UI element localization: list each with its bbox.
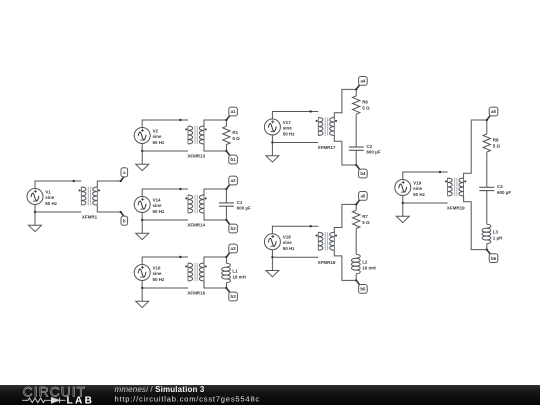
wire primary top — [142, 257, 188, 265]
svg-text:sine: sine — [153, 203, 163, 208]
svg-text:50 Hz: 50 Hz — [153, 209, 166, 214]
ground — [29, 212, 42, 232]
wire secondary bottom — [334, 136, 356, 166]
svg-text:XFMR17: XFMR17 — [318, 145, 336, 150]
svg-text:b5: b5 — [360, 287, 366, 292]
wire secondary top — [204, 120, 226, 126]
wire R1 bottom stub — [225, 145, 227, 152]
resistor R1 — [223, 126, 230, 144]
label V16 value (sine 50 Hz) — [153, 265, 166, 282]
svg-text:V17: V17 — [283, 120, 292, 125]
svg-text:600 µF: 600 µF — [366, 149, 380, 154]
junction — [179, 188, 181, 190]
svg-text:b2: b2 — [231, 226, 237, 231]
svg-text:5 Ω: 5 Ω — [362, 220, 370, 225]
junction — [34, 211, 36, 213]
label V2 value (sine 50 Hz) — [153, 128, 166, 145]
wire C1 top stub — [225, 189, 227, 203]
svg-text:XFMR19: XFMR19 — [447, 206, 465, 211]
svg-text:L1: L1 — [232, 268, 238, 273]
node a1 — [225, 107, 237, 121]
svg-text:V18: V18 — [283, 235, 292, 240]
capacitor C4 — [479, 187, 494, 190]
wire C4-L3 — [486, 191, 488, 225]
inductor L1 — [222, 263, 231, 282]
svg-text:mmenesi / Simulation 3: mmenesi / Simulation 3 — [115, 385, 205, 394]
junction — [310, 110, 312, 112]
svg-text:XFMR1: XFMR1 — [82, 215, 98, 220]
transformer XFMR16 — [185, 263, 207, 281]
label V14 value (sine 50 Hz) — [153, 197, 166, 214]
voltage source V19 — [395, 180, 411, 196]
junction — [402, 202, 404, 204]
svg-text:R6: R6 — [362, 99, 368, 104]
junction — [141, 219, 143, 221]
svg-text:V19: V19 — [413, 180, 422, 185]
wire secondary bottom — [204, 281, 226, 288]
ground — [396, 203, 409, 223]
node b5 — [355, 279, 367, 293]
svg-text:600 µF: 600 µF — [237, 205, 251, 210]
label V17 value (sine 50 Hz) — [283, 120, 296, 136]
svg-text:50 Hz: 50 Hz — [45, 201, 58, 206]
wire primary bottom — [35, 205, 81, 213]
wire R6-C2 — [355, 114, 357, 147]
junction — [271, 141, 273, 143]
svg-text:sine: sine — [153, 271, 163, 276]
svg-text:L2: L2 — [362, 260, 368, 265]
svg-text:V1: V1 — [45, 189, 51, 194]
label L1 value — [232, 268, 246, 279]
label C2 value — [366, 144, 380, 155]
wire secondary bottom — [464, 196, 487, 250]
svg-text:sine: sine — [153, 134, 163, 139]
wire primary top — [142, 189, 188, 197]
svg-text:5 Ω: 5 Ω — [232, 136, 240, 141]
junction — [179, 256, 181, 258]
label L2 value — [362, 260, 376, 271]
svg-text:b3: b3 — [231, 294, 237, 299]
wire primary top — [272, 112, 318, 120]
svg-text:50 Hz: 50 Hz — [413, 192, 426, 197]
inductor L3 — [482, 224, 491, 243]
wire C1 bottom stub — [225, 206, 227, 220]
ground — [136, 288, 149, 308]
voltage source V1 — [27, 189, 43, 205]
voltage source V16 — [134, 265, 150, 281]
resistor R8 — [483, 134, 490, 152]
svg-text:b: b — [123, 218, 126, 223]
svg-text:XFMR14: XFMR14 — [187, 223, 205, 228]
voltage source V2 — [134, 128, 150, 144]
wire C2 bottom stub — [355, 150, 357, 165]
wire primary bottom — [272, 135, 318, 143]
node b6 — [486, 248, 498, 262]
svg-text:5 Ω: 5 Ω — [362, 106, 370, 111]
node a2 — [225, 176, 237, 190]
svg-text:1 µH: 1 µH — [493, 235, 503, 240]
wire L1 bottom stub — [225, 283, 227, 288]
label C4 value — [497, 184, 511, 195]
label V19 value (sine 50 Hz) — [413, 180, 426, 197]
ground — [136, 220, 149, 240]
wire secondary top — [204, 189, 226, 195]
wire R8 top stub — [486, 120, 488, 134]
svg-text:LAB: LAB — [67, 396, 95, 405]
wire R7 top stub — [355, 204, 357, 210]
wire secondary top — [204, 257, 226, 263]
wire primary bottom — [142, 213, 188, 221]
wire secondary bottom — [97, 205, 120, 212]
svg-text:50 Hz: 50 Hz — [283, 246, 296, 251]
svg-text:XFMR18: XFMR18 — [318, 260, 336, 265]
capacitor C2 — [349, 147, 364, 150]
resistor R7 — [353, 210, 360, 228]
wire secondary top — [464, 120, 487, 178]
junction — [141, 150, 143, 152]
voltage source V18 — [264, 234, 280, 250]
svg-text:C2: C2 — [366, 144, 372, 149]
label R1 value — [232, 130, 240, 141]
svg-text:C1: C1 — [237, 200, 243, 205]
node a6 — [486, 107, 498, 121]
node b3 — [225, 287, 237, 301]
svg-text:C4: C4 — [497, 184, 503, 189]
voltage source V14 — [134, 197, 150, 213]
svg-text:XFMR13: XFMR13 — [187, 154, 205, 159]
junction — [179, 119, 181, 121]
node b4 — [355, 164, 367, 178]
svg-text:V14: V14 — [153, 197, 162, 202]
svg-text:R1: R1 — [232, 130, 238, 135]
svg-text:50 Hz: 50 Hz — [283, 131, 296, 136]
junction — [271, 256, 273, 258]
wire L3 bottom stub — [486, 244, 488, 250]
wire L2 bottom stub — [355, 274, 357, 281]
node b — [120, 211, 128, 225]
label R8 value — [493, 137, 501, 148]
svg-text:5 Ω: 5 Ω — [493, 144, 501, 149]
label V18 value (sine 50 Hz) — [283, 235, 296, 252]
svg-text:b1: b1 — [231, 157, 237, 162]
wire primary bottom — [142, 144, 188, 152]
svg-text:R7: R7 — [362, 214, 368, 219]
wire secondary bottom — [204, 213, 226, 220]
svg-text:sine: sine — [45, 195, 55, 200]
transformer XFMR1 — [79, 187, 101, 205]
svg-text:V2: V2 — [153, 128, 159, 133]
node a4 — [355, 77, 367, 91]
footer bar — [0, 385, 540, 405]
svg-text:50 Hz: 50 Hz — [153, 140, 166, 145]
wire primary top — [403, 172, 448, 180]
junction — [141, 287, 143, 289]
voltage source V17 — [264, 119, 280, 135]
svg-text:V16: V16 — [153, 265, 162, 270]
wire R7-L2 — [355, 229, 357, 255]
wire R1 top stub — [225, 120, 227, 126]
transformer XFMR19 — [445, 178, 467, 196]
node b1 — [225, 150, 237, 164]
svg-text:http://circuitlab.com/csst7ges: http://circuitlab.com/csst7ges5548c — [115, 394, 260, 403]
svg-text:a4: a4 — [360, 79, 365, 84]
wire L1 top stub — [225, 257, 227, 263]
transformer XFMR17 — [316, 117, 338, 135]
transformer XFMR13 — [185, 126, 207, 144]
wire secondary bottom — [204, 144, 226, 151]
wire primary top — [142, 120, 188, 128]
node a — [120, 168, 128, 182]
transformer XFMR18 — [316, 232, 338, 250]
svg-text:R8: R8 — [493, 137, 499, 142]
wire secondary top — [334, 89, 356, 117]
wire secondary top — [97, 181, 120, 187]
label R7 value — [362, 214, 370, 225]
ground — [136, 151, 149, 171]
svg-text:a1: a1 — [231, 109, 236, 114]
ground — [266, 257, 279, 277]
svg-text:a5: a5 — [360, 194, 365, 199]
svg-text:sine: sine — [413, 186, 423, 191]
svg-text:50 Hz: 50 Hz — [153, 277, 166, 282]
label V1 value (sine 50 Hz) — [45, 189, 58, 206]
transformer XFMR14 — [185, 195, 207, 213]
svg-text:a3: a3 — [231, 246, 236, 251]
inductor L2 — [351, 254, 360, 273]
label C1 value — [237, 200, 251, 211]
svg-text:16 mH: 16 mH — [232, 274, 246, 279]
wire primary bottom — [142, 281, 188, 289]
wire R6 top stub — [355, 89, 357, 96]
junction — [439, 171, 441, 173]
svg-text:L3: L3 — [493, 229, 499, 234]
svg-text:sine: sine — [283, 126, 293, 131]
ground — [266, 143, 279, 163]
logo schematic squiggle: wire, resistor, diode — [22, 398, 65, 404]
wire primary bottom — [403, 196, 448, 204]
label R6 value — [362, 99, 370, 110]
svg-text:a2: a2 — [231, 178, 236, 183]
svg-text:b4: b4 — [360, 171, 366, 176]
svg-text:600 µF: 600 µF — [497, 190, 511, 195]
wire secondary bottom — [334, 250, 356, 280]
svg-text:sine: sine — [283, 240, 293, 245]
node a5 — [355, 192, 367, 206]
wire primary bottom — [272, 250, 318, 258]
capacitor C1 — [219, 203, 234, 206]
wire primary top — [35, 181, 81, 189]
wire R8-C4 — [486, 152, 488, 187]
junction — [73, 180, 75, 182]
wire secondary top — [334, 204, 356, 232]
resistor R6 — [353, 96, 360, 114]
junction — [310, 225, 312, 227]
svg-text:b6: b6 — [491, 256, 497, 261]
svg-text:XFMR16: XFMR16 — [187, 291, 205, 296]
svg-text:16 mH: 16 mH — [362, 265, 376, 270]
wire primary top — [272, 226, 318, 234]
node a3 — [225, 244, 237, 258]
label L3 value — [493, 229, 503, 240]
node b2 — [225, 219, 237, 233]
svg-text:a6: a6 — [491, 109, 496, 114]
